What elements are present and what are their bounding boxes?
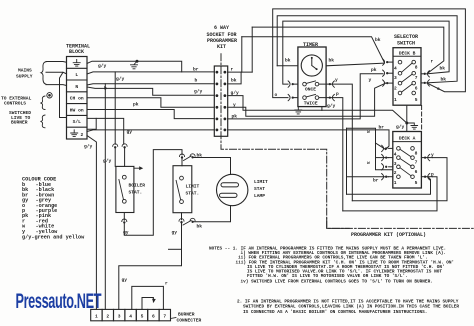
svg-text:SUPPLY: SUPPLY	[16, 74, 33, 80]
svg-text:pk: pk	[232, 113, 238, 119]
deck B left arrow pin3	[383, 70, 393, 76]
svg-text:br: br	[379, 125, 385, 131]
svg-text:STAT.: STAT.	[186, 191, 200, 197]
arrowhead link into cell6	[152, 299, 156, 303]
svg-text:8: 8	[415, 150, 418, 156]
wire: S/L riser T	[87, 118, 96, 129]
wire: mains earth feed	[46, 61, 67, 64]
bullet connector boiler bottom	[122, 219, 127, 224]
arrowhead ONCE right	[332, 81, 334, 87]
switch ONCE contacts	[303, 81, 319, 86]
deck A pins left	[397, 147, 401, 179]
wire: deck B earth junction down to deck A	[406, 106, 408, 131]
svg-text:3: 3	[118, 313, 121, 319]
limit stat contacts	[176, 176, 183, 203]
svg-text:g/y: g/y	[103, 158, 112, 164]
wire: burner bracket cell4 to cell7	[132, 286, 164, 309]
label TERMINAL BLOCK	[66, 44, 90, 56]
svg-text:g/y: g/y	[327, 103, 336, 109]
svg-text:SOCKET FOR: SOCKET FOR	[207, 32, 237, 38]
svg-text:6: 6	[415, 86, 418, 92]
svg-text:BURNER: BURNER	[11, 120, 28, 126]
svg-text:6: 6	[415, 169, 418, 175]
svg-text:S/L: S/L	[73, 119, 82, 125]
svg-text:Pressauto.NET: Pressauto.NET	[16, 288, 102, 312]
svg-text:DECK B: DECK B	[399, 50, 416, 56]
brace mains supply	[41, 62, 46, 84]
svg-text:bk: bk	[285, 58, 291, 64]
deck A header underline	[393, 141, 422, 143]
brace switched live to burner	[41, 115, 46, 128]
switch TWICE arrows and stubs	[293, 97, 331, 99]
svg-text:y: y	[369, 78, 372, 83]
wire: S/L row to boiler stat drop	[87, 118, 124, 144]
switch ONCE arrows and stubs	[293, 83, 331, 85]
deck B right arrow pin7	[421, 71, 429, 77]
label BURNER CONNECTER	[177, 311, 202, 323]
svg-text:1: 1	[394, 97, 397, 103]
svg-text:w: w	[367, 130, 370, 135]
svg-text:STAT.: STAT.	[129, 190, 143, 196]
lamp circle	[217, 174, 248, 205]
bullet connector boiler left	[113, 144, 118, 149]
limit stat box	[173, 166, 192, 213]
wire: leader to burner label	[170, 318, 176, 319]
wire: N lower branch to socket pin 3	[87, 87, 214, 95]
node A circled link marker	[47, 93, 52, 98]
svg-text:PROGRAMMER KIT (OPTIONAL): PROGRAMMER KIT (OPTIONAL)	[351, 232, 426, 238]
wire: y loop below deck A	[352, 158, 447, 201]
boiler stat arrow right	[134, 166, 143, 170]
svg-text:SELECTOR: SELECTOR	[394, 34, 418, 40]
deck A pin numbers right	[415, 150, 418, 186]
timer box	[298, 47, 326, 107]
deck B pin numbers right	[415, 64, 418, 103]
wire: earth row from block	[87, 61, 182, 72]
svg-text:br: br	[193, 66, 199, 72]
svg-text:LAMP: LAMP	[254, 193, 265, 199]
svg-text:g/y: g/y	[396, 124, 405, 130]
wire: w feed to pin3 arrow	[376, 157, 389, 159]
timer clock hands	[311, 57, 318, 70]
wire: timer g y to deck earth junction	[321, 107, 323, 111]
deck A right arrow pin5 row p	[421, 174, 432, 180]
svg-text:HW on: HW on	[70, 107, 84, 113]
node junction dot g/y	[405, 122, 408, 125]
svg-text:BURNER: BURNER	[178, 311, 195, 317]
svg-text:iv) SWITCHED LIVE FROM EXTERNA: iv) SWITCHED LIVE FROM EXTERNAL CONTROLS…	[241, 279, 433, 284]
svg-text:o: o	[437, 87, 440, 92]
svg-text:p: p	[336, 92, 339, 97]
svg-text:gy: gy	[122, 278, 128, 283]
wire: limit bottom down to burner cell 3	[119, 223, 182, 309]
svg-text:5: 5	[415, 180, 418, 186]
svg-text:o: o	[275, 93, 278, 98]
wire: lamp bottom return	[194, 206, 231, 222]
switch TWICE contacts	[303, 94, 319, 99]
svg-text:ONCE: ONCE	[305, 87, 316, 93]
wire: g y line to deck B bottom junction	[322, 110, 407, 123]
burner connector cells	[91, 309, 171, 320]
svg-text:PROGRAMMER: PROGRAMMER	[207, 38, 237, 44]
deck A right arrow pin8 row y	[421, 154, 432, 160]
deck A wipers	[400, 149, 411, 176]
svg-text:bk: bk	[375, 37, 381, 43]
wire: socket pk row5 to deck B pin3	[228, 74, 383, 119]
bullet connector boiler right	[122, 144, 127, 149]
svg-text:2: 2	[81, 132, 84, 138]
deck A box	[393, 132, 422, 189]
svg-text:gy: gy	[127, 130, 133, 135]
svg-text:g/y-green and yellow: g/y-green and yellow	[22, 235, 85, 241]
svg-text:LIMIT: LIMIT	[254, 179, 268, 185]
wire: L tap down to boiler stat	[114, 72, 116, 144]
deck A left arrow pin4	[382, 145, 393, 151]
svg-text:bk: bk	[197, 223, 203, 229]
wire: loop4 r to deck B pin7	[252, 27, 444, 74]
wire: N tap down to burner cell 2	[104, 84, 106, 310]
svg-text:bk: bk	[329, 58, 335, 64]
wire: socket y row4 to deck B pin2	[228, 83, 386, 116]
wire: mains live feed	[46, 72, 67, 74]
boundary bottom left solid corner	[327, 218, 350, 228]
deck B right arrow pin6	[421, 80, 429, 86]
wire: earth2 row to socket pin 6	[87, 130, 214, 132]
svg-text:4: 4	[394, 152, 397, 158]
wire: socket r loop risers	[228, 71, 253, 73]
wire: w bracket feed deck A	[347, 128, 393, 169]
wire: loop5 bk diagonal to deck B pin4	[242, 37, 384, 63]
svg-text:CH on: CH on	[70, 96, 84, 102]
lamp slot lower	[220, 193, 238, 197]
deck B box	[393, 48, 421, 105]
wire: boiler bottom to limit riser	[123, 213, 125, 221]
label TO EXTERNAL CONTROLS	[1, 96, 32, 107]
svg-text:7: 7	[415, 75, 418, 81]
svg-text:gy: gy	[123, 230, 129, 235]
ground symbol at deck junction	[407, 123, 418, 129]
svg-text:CONTROLS: CONTROLS	[4, 101, 26, 107]
svg-text:5: 5	[415, 97, 418, 103]
lamp slot upper	[221, 183, 239, 187]
wire: boiler bottom across and up to limit stat	[124, 150, 182, 236]
wire: loop1 orange top	[273, 9, 466, 98]
wire: w feed diag to pin4 arrow	[376, 143, 386, 150]
svg-text:LIMIT: LIMIT	[186, 184, 200, 190]
deck A pin numbers left	[394, 152, 397, 187]
svg-text:2: 2	[106, 313, 109, 319]
wire: br row from socket row6 to deck A pin4	[228, 130, 389, 150]
watermark Pressauto.NET	[16, 288, 102, 312]
deck A left arrow pin3	[382, 154, 393, 160]
svg-text:DECK A: DECK A	[399, 136, 416, 142]
terminal block cell dividers	[67, 68, 88, 127]
svg-text:TWICE: TWICE	[304, 100, 318, 106]
bullet connector limit top main	[180, 154, 185, 159]
wire: mid vertical bracket to lower loop	[346, 128, 348, 194]
deck A left arrow pin1	[382, 174, 393, 180]
wire: loop2 bk timer clock	[277, 16, 457, 83]
boiler stat contacts	[119, 175, 126, 203]
svg-text:bk: bk	[231, 78, 237, 84]
deck B left arrow pin4	[383, 59, 393, 65]
label BOILER STAT.	[129, 183, 146, 196]
label LIMIT STAT.	[186, 184, 200, 197]
svg-text:g/y: g/y	[98, 63, 107, 69]
connector 6 way socket body	[214, 66, 227, 136]
svg-text:pk: pk	[133, 102, 139, 108]
deck B left arrow pin2	[383, 80, 393, 86]
svg-text:L: L	[75, 72, 78, 78]
wire: CH on row to socket pin 4	[87, 98, 214, 108]
wire: block corner down to burner cell 1	[87, 136, 96, 310]
svg-text:MAINS: MAINS	[18, 68, 32, 74]
svg-text:b: b	[195, 78, 198, 84]
svg-text:3: 3	[394, 161, 397, 167]
wire: clock bk to deck B pin4	[326, 63, 384, 66]
node junction dot on earth row	[136, 60, 139, 63]
svg-text:bk: bk	[440, 66, 446, 72]
svg-text:pk: pk	[371, 67, 377, 73]
wire: N row to socket pin 2	[87, 84, 214, 85]
arrowhead ONCE left	[288, 81, 290, 87]
svg-text:IS CONNECTED AS A 'BASIC BOILE: IS CONNECTED AS A 'BASIC BOILER' ON CONT…	[243, 310, 427, 315]
burner connector cell numbers	[95, 313, 166, 319]
svg-text:3: 3	[394, 75, 397, 81]
svg-text:BOILER: BOILER	[129, 183, 146, 189]
boiler stat box	[116, 166, 134, 212]
socket pins right column	[224, 71, 227, 132]
wire: p loop below deck A	[343, 177, 437, 211]
svg-text:5: 5	[141, 313, 144, 319]
wire: y from ONCE down to loop	[331, 84, 353, 201]
bullet connector limit top branch	[184, 154, 196, 161]
svg-text:2: 2	[394, 86, 397, 92]
svg-text:CONNECTER: CONNECTER	[177, 317, 202, 323]
svg-text:y: y	[335, 78, 338, 83]
label 6 WAY SOCKET FOR PROGRAMMER KIT	[207, 25, 238, 50]
wire: stub near notes	[169, 248, 182, 250]
terminal block outline	[67, 57, 88, 140]
notes text block	[209, 247, 459, 315]
svg-text:y: y	[233, 103, 236, 108]
deck B header underline	[393, 55, 421, 57]
boundary dashed between deck B and deck A	[421, 106, 423, 132]
wire: bk branch to lamp	[194, 158, 231, 175]
label COLOUR CODE legend	[22, 176, 85, 240]
svg-text:r: r	[165, 282, 168, 287]
svg-text:r: r	[231, 67, 234, 72]
wire: L row to socket pin 1	[87, 72, 214, 74]
svg-text:6: 6	[152, 313, 155, 319]
wire: bullets into boiler box	[115, 149, 124, 167]
wire: limit top into box	[181, 159, 183, 166]
ground symbol on earth row	[131, 61, 138, 69]
svg-text:STAT: STAT	[254, 186, 265, 192]
svg-text:1: 1	[394, 180, 397, 186]
brace to external controls	[41, 96, 46, 110]
ground below timer	[295, 107, 302, 114]
svg-text:gy: gy	[172, 230, 178, 235]
arrowhead TWICE right	[332, 94, 334, 100]
wire: loop3 bk once switch	[283, 21, 449, 84]
terminal earth 2 symbol cell 7	[71, 130, 78, 137]
wire: socket bk row2 tie	[228, 72, 241, 84]
svg-text:7: 7	[163, 313, 166, 319]
wire: riser to loop4	[251, 27, 253, 72]
label MAINS SUPPLY	[16, 68, 33, 80]
wire: burner bracket cell5 to cell6	[142, 298, 153, 310]
bullet connector limit bottom branch	[183, 218, 195, 225]
wire: p from TWICE down to loop	[331, 98, 343, 211]
boundary programmer kit dashed through socket	[221, 54, 474, 229]
wire: mains neutral feed	[46, 84, 67, 87]
bullet connector limit bottom main	[179, 219, 184, 224]
label SELECTOR SWITCH	[394, 34, 418, 46]
deck A left arrow pin2	[382, 164, 393, 170]
deck B pins right	[412, 60, 416, 94]
deck B pin numbers left	[394, 65, 397, 103]
svg-text:4: 4	[129, 313, 132, 319]
label SWITCHED LIVE TO BURNER	[9, 110, 31, 125]
svg-text:g/y: g/y	[84, 143, 93, 149]
svg-text:1: 1	[95, 313, 98, 319]
wire: lower loop third	[347, 177, 431, 195]
wire: HW on pk row to socket pin 5	[87, 110, 214, 119]
svg-text:r: r	[431, 59, 434, 64]
label LIMIT STAT LAMP	[254, 179, 268, 199]
wire: link A from L down to S/L	[60, 72, 67, 117]
svg-text:br: br	[373, 178, 379, 184]
svg-text:7: 7	[415, 160, 418, 166]
svg-text:g/y: g/y	[194, 88, 203, 94]
deck B wipers	[402, 63, 413, 92]
svg-text:N: N	[75, 84, 78, 90]
svg-text:bk: bk	[441, 77, 447, 83]
svg-text:6 WAY: 6 WAY	[214, 25, 229, 31]
wire: socket g/y row3 to timer ground line	[228, 96, 322, 111]
svg-text:g/y: g/y	[231, 90, 240, 96]
wire: limit bottom to bullet	[181, 213, 183, 220]
svg-text:BLOCK: BLOCK	[69, 49, 84, 55]
wire: loop2 into clock	[277, 65, 298, 67]
terminal earth symbol cell 1	[73, 60, 80, 67]
svg-text:SWITCH: SWITCH	[397, 40, 415, 46]
svg-text:4: 4	[394, 65, 397, 71]
wire: riser to loop5	[241, 37, 243, 72]
timer clock face	[301, 55, 322, 76]
svg-text:8: 8	[415, 64, 418, 70]
svg-text:w: w	[367, 161, 370, 166]
wire: br feed deck A pin1	[347, 176, 389, 178]
svg-text:g/y: g/y	[116, 76, 125, 82]
deck A pins right	[411, 147, 415, 179]
svg-text:2: 2	[394, 170, 397, 176]
arrowhead TWICE left	[288, 94, 290, 100]
socket pins left column	[216, 71, 219, 132]
svg-text:KIT: KIT	[217, 44, 226, 50]
deck B pins left	[398, 60, 402, 94]
